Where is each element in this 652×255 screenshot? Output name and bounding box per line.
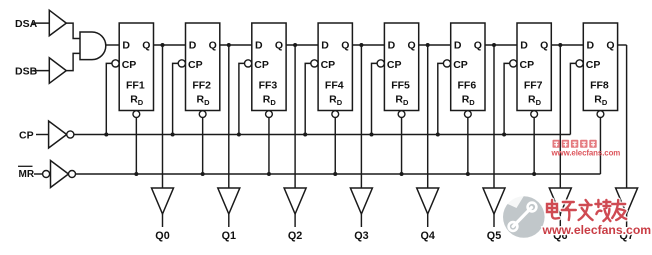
output label Q0 <box>155 230 169 242</box>
wire <box>135 118 137 175</box>
RD bubble FF7 <box>531 111 538 118</box>
wire <box>305 63 311 134</box>
input label DSA <box>15 18 38 30</box>
wire <box>570 63 576 134</box>
svg-text:D: D <box>204 98 210 107</box>
junction <box>502 133 506 137</box>
junction <box>532 172 536 176</box>
wire <box>106 44 119 46</box>
svg-text:CP: CP <box>188 59 203 71</box>
buffer U1 (DSA) <box>49 10 66 36</box>
buffer U3 (CP) <box>49 121 67 148</box>
input label DSB <box>15 66 38 78</box>
wire <box>559 214 561 227</box>
svg-text:FF4: FF4 <box>325 79 344 91</box>
wire <box>352 44 384 46</box>
svg-text:D: D <box>189 39 197 51</box>
flip-flop FF2 <box>186 23 220 111</box>
junction <box>267 172 271 176</box>
CP bubble FF5 <box>377 60 384 67</box>
wire <box>286 44 318 46</box>
watermark big url text <box>542 223 652 237</box>
svg-text:D: D <box>321 39 329 51</box>
svg-text:CP: CP <box>387 59 402 71</box>
svg-text:D: D <box>587 39 595 51</box>
CP rail wire <box>74 134 571 136</box>
output buffer Q7 <box>616 188 638 214</box>
wire <box>294 45 296 188</box>
wire <box>202 118 204 175</box>
watermark small CJK text <box>553 140 597 148</box>
node Q1 <box>227 43 231 47</box>
svg-text:Q: Q <box>209 39 217 51</box>
wire <box>559 45 561 188</box>
CP bubble FF3 <box>245 60 252 67</box>
output buffer Q3 <box>350 188 372 214</box>
output label Q7 <box>619 230 633 242</box>
RD bubble FF5 <box>398 111 405 118</box>
junction <box>400 172 404 176</box>
wire <box>401 118 403 175</box>
output label Q6 <box>553 230 567 242</box>
node Q2 <box>293 43 297 47</box>
output label Q4 <box>420 230 434 242</box>
wire <box>551 44 583 46</box>
wire <box>66 53 80 70</box>
svg-text:Q5: Q5 <box>487 230 501 242</box>
svg-text:D: D <box>388 39 396 51</box>
svg-text:Q3: Q3 <box>354 230 368 242</box>
svg-text:FF5: FF5 <box>391 79 410 91</box>
svg-text:D: D <box>454 39 462 51</box>
junction <box>466 172 470 176</box>
input label MR <box>18 166 35 180</box>
wire <box>504 63 510 134</box>
svg-text:CP: CP <box>586 59 601 71</box>
bubble <box>43 171 50 178</box>
CP bubble FF8 <box>576 60 583 67</box>
svg-text:MR: MR <box>19 169 35 180</box>
output buffer Q4 <box>417 188 439 214</box>
svg-text:Q: Q <box>341 39 349 51</box>
svg-text:CP: CP <box>321 59 336 71</box>
flip-flop FF4 <box>318 23 352 111</box>
svg-text:D: D <box>270 98 276 107</box>
svg-text:Q1: Q1 <box>222 230 236 242</box>
RD bubble FF1 <box>133 111 140 118</box>
svg-text:D: D <box>337 98 343 107</box>
svg-text:D: D <box>602 98 608 107</box>
output buffer Q5 <box>483 188 505 214</box>
svg-text:Q0: Q0 <box>155 230 169 242</box>
svg-text:FF8: FF8 <box>590 79 609 91</box>
MR rail wire <box>76 173 601 175</box>
svg-text:DSB: DSB <box>15 66 38 78</box>
svg-text:CP: CP <box>254 59 269 71</box>
output buffer Q2 <box>284 188 306 214</box>
output label Q3 <box>354 230 368 242</box>
svg-text:FF2: FF2 <box>192 79 211 91</box>
wire <box>228 45 230 188</box>
junction <box>171 133 175 137</box>
svg-text:Q: Q <box>540 39 548 51</box>
wire <box>294 214 296 227</box>
junction <box>370 133 374 137</box>
svg-text:Q: Q <box>474 39 482 51</box>
output buffer Q0 <box>152 188 174 214</box>
wire <box>33 70 50 72</box>
wire <box>268 118 270 175</box>
flip-flop FF6 <box>451 23 485 111</box>
svg-text:D: D <box>469 98 475 107</box>
svg-text:D: D <box>122 39 130 51</box>
svg-text:Q: Q <box>606 39 614 51</box>
wire <box>372 63 378 134</box>
wire <box>154 44 186 46</box>
RD bubble FF8 <box>597 111 604 118</box>
wire <box>493 45 495 188</box>
wire <box>66 23 80 38</box>
output buffer Q6 <box>549 188 571 214</box>
svg-text:Q2: Q2 <box>288 230 302 242</box>
junction <box>134 172 138 176</box>
output label Q5 <box>487 230 501 242</box>
svg-text:FF7: FF7 <box>524 79 543 91</box>
wire <box>618 44 627 46</box>
wire <box>626 45 628 188</box>
wire <box>33 22 50 24</box>
junction <box>436 133 440 137</box>
svg-text:Q4: Q4 <box>420 230 434 242</box>
wire <box>360 45 362 188</box>
wire <box>485 44 517 46</box>
svg-text:Q: Q <box>142 39 150 51</box>
svg-text:FF1: FF1 <box>126 79 145 91</box>
svg-text:CP: CP <box>19 129 34 141</box>
svg-text:D: D <box>138 98 144 107</box>
flip-flop FF7 <box>517 23 551 111</box>
input label CP <box>19 129 34 141</box>
junction <box>201 172 205 176</box>
AND gate G1 <box>80 32 106 60</box>
buffer U2 (DSB) <box>49 58 66 84</box>
wire <box>334 118 336 175</box>
wire <box>427 214 429 227</box>
node Q6 <box>558 43 562 47</box>
wire <box>533 118 535 175</box>
CP bubble FF4 <box>311 60 318 67</box>
flip-flop FF8 <box>583 23 617 111</box>
RD bubble FF2 <box>199 111 206 118</box>
svg-text:CP: CP <box>453 59 468 71</box>
node Q3 <box>359 43 363 47</box>
RD bubble FF3 <box>266 111 273 118</box>
junction <box>104 133 108 137</box>
bubble <box>69 171 76 178</box>
wire <box>162 214 164 227</box>
svg-text:D: D <box>536 98 542 107</box>
CP bubble FF1 <box>112 60 119 67</box>
wire <box>419 44 451 46</box>
svg-text:DSA: DSA <box>15 18 38 30</box>
svg-text:Q: Q <box>275 39 283 51</box>
svg-text:FF6: FF6 <box>458 79 477 91</box>
svg-text:www.elecfans.com: www.elecfans.com <box>542 223 652 237</box>
output label Q2 <box>288 230 302 242</box>
flip-flop FF1 <box>119 23 153 111</box>
svg-text:Q: Q <box>408 39 416 51</box>
RD bubble FF4 <box>332 111 339 118</box>
bubble <box>67 131 74 138</box>
flip-flop FF3 <box>252 23 286 111</box>
wire <box>228 214 230 227</box>
node Q0 <box>161 43 165 47</box>
wire <box>599 118 601 175</box>
RD bubble FF6 <box>464 111 471 118</box>
watermark big CJK text <box>547 200 626 221</box>
buffer U4 (MR) <box>51 161 69 188</box>
CP bubble FF2 <box>178 60 185 67</box>
wire <box>162 45 164 188</box>
watermark small url text <box>551 148 621 157</box>
svg-text:D: D <box>255 39 263 51</box>
wire <box>173 63 179 134</box>
svg-text:CP: CP <box>520 59 535 71</box>
svg-text:www.elecfans.com: www.elecfans.com <box>551 148 621 157</box>
output buffer Q1 <box>218 188 240 214</box>
wire <box>438 63 444 134</box>
flip-flop FF5 <box>384 23 418 111</box>
wire <box>467 118 469 175</box>
junction <box>333 172 337 176</box>
wire <box>493 214 495 227</box>
svg-text:CP: CP <box>122 59 137 71</box>
wire <box>34 173 43 175</box>
wire <box>220 44 252 46</box>
wire <box>427 45 429 188</box>
CP bubble FF6 <box>443 60 450 67</box>
wire <box>106 63 112 134</box>
watermark logo <box>503 196 545 238</box>
node Q4 <box>426 43 430 47</box>
svg-text:FF3: FF3 <box>259 79 278 91</box>
CP bubble FF7 <box>510 60 517 67</box>
output label Q1 <box>222 230 236 242</box>
junction <box>303 133 307 137</box>
wire <box>626 214 628 227</box>
wire <box>239 63 245 134</box>
junction <box>237 133 241 137</box>
svg-text:D: D <box>403 98 409 107</box>
node Q5 <box>492 43 496 47</box>
svg-text:D: D <box>520 39 528 51</box>
wire <box>360 214 362 227</box>
wire <box>36 134 49 136</box>
